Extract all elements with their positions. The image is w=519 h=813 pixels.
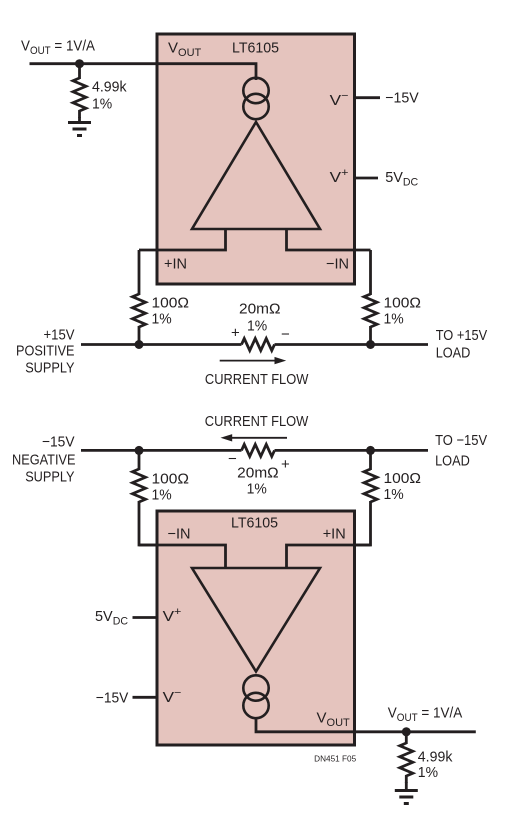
label 100ohm (R3) — [384, 295, 422, 312]
wire R6 to -IN rail — [139, 501, 226, 545]
svg-text:NEGATIVE: NEGATIVE — [12, 452, 76, 469]
svg-text:−15V: −15V — [96, 689, 129, 706]
node junction R3/rail — [366, 340, 375, 349]
node junction at R8 top — [402, 727, 411, 736]
svg-text:POSITIVE: POSITIVE — [16, 343, 75, 360]
wire V+ stub — [355, 177, 378, 180]
label LT6105 (top box) — [232, 40, 279, 57]
wire R7 to +IN rail — [287, 501, 371, 545]
label VOUT = 1V/A (top left) — [21, 37, 95, 57]
svg-text:−15V: −15V — [42, 434, 75, 451]
resistor R3 100ohm right zigzag — [364, 294, 377, 327]
svg-text:−IN: −IN — [168, 526, 191, 543]
svg-text:4.99k: 4.99k — [418, 749, 453, 766]
svg-text:SUPPLY: SUPPLY — [25, 469, 74, 486]
wire to R8 — [405, 732, 408, 744]
label + (R4 left) — [231, 324, 240, 341]
label 1% (R8) — [418, 764, 438, 781]
wire V- stub (bottom) — [133, 696, 159, 699]
current flow arrow (top, pointing right) — [220, 357, 287, 364]
svg-text:TO +15V: TO +15V — [436, 327, 488, 344]
resistor R7 100ohm right zigzag (bottom) — [364, 469, 377, 502]
svg-text:20mΩ: 20mΩ — [237, 465, 279, 482]
label -15V NEGATIVE SUPPLY — [12, 434, 76, 486]
wire R3 to supply rail — [369, 326, 372, 345]
resistor R5 20mohm shunt zigzag (bottom) — [242, 444, 275, 456]
svg-text:LT6105: LT6105 — [232, 40, 279, 57]
svg-text:LOAD: LOAD — [435, 452, 470, 469]
label 1% (R3) — [384, 311, 404, 328]
label -15V (bottom V-) — [96, 689, 129, 706]
label 1% (R1) — [92, 96, 112, 113]
ground (bottom right) — [395, 791, 418, 804]
label VOUT = 1V/A (bottom right) — [388, 704, 463, 724]
pin V- (top box) — [330, 90, 349, 109]
current flow arrow (bottom, pointing left) — [221, 434, 288, 441]
wire V- stub — [354, 96, 380, 99]
resistor R1 4.99k zigzag — [73, 78, 86, 118]
label 1% (R5) — [247, 481, 267, 498]
svg-text:LT6105: LT6105 — [231, 515, 278, 532]
svg-text:TO −15V: TO −15V — [435, 432, 487, 449]
pin V- (bottom box) — [163, 687, 182, 706]
svg-text:+IN: +IN — [164, 256, 187, 273]
svg-text:1%: 1% — [247, 318, 267, 335]
label 100ohm (R6) — [152, 471, 190, 488]
svg-text:+: + — [231, 324, 240, 341]
wire rail to R6 — [138, 450, 141, 470]
wire V+ stub (bottom) — [133, 616, 159, 619]
label 4.99k (R8) — [418, 749, 453, 766]
svg-text:20mΩ: 20mΩ — [239, 301, 281, 318]
svg-text:−: − — [228, 450, 237, 467]
label 5VDC (top V+ supply) — [385, 169, 418, 189]
label VOUT (bottom box pin) — [317, 710, 351, 730]
label +15V POSITIVE SUPPLY — [16, 327, 75, 377]
wire +15V supply rail right — [275, 343, 429, 346]
svg-text:1%: 1% — [92, 96, 112, 113]
label 1% (R7) — [384, 486, 404, 503]
wire -IN right vertical — [369, 250, 372, 295]
label -15V (top V- supply) — [385, 90, 419, 107]
amplifier triangle U1 — [192, 122, 320, 229]
label -IN (bottom box) — [168, 526, 191, 543]
svg-text:+15V: +15V — [44, 327, 75, 344]
svg-text:CURRENT FLOW: CURRENT FLOW — [205, 413, 309, 430]
label -IN (top box) — [326, 256, 349, 273]
current source U2 (two circles) — [243, 675, 268, 718]
svg-text:VOUT = 1V/A: VOUT = 1V/A — [388, 704, 463, 724]
svg-text:1%: 1% — [384, 311, 404, 328]
wire -15V supply rail right — [275, 449, 429, 452]
wire +IN rail into box — [287, 545, 371, 569]
wire R8 to ground — [405, 782, 408, 791]
label 100ohm (R7) — [384, 470, 422, 487]
wire -IN stub (triangle to -IN rail) — [287, 228, 371, 250]
wire VOUT output (top left) — [30, 62, 158, 65]
svg-text:1%: 1% — [418, 764, 438, 781]
svg-text:4.99k: 4.99k — [92, 79, 127, 96]
node junction left rail/R6 — [135, 446, 144, 455]
svg-text:5VDC: 5VDC — [385, 169, 418, 189]
resistor R2 100ohm left zigzag — [133, 294, 146, 327]
label 5VDC (bottom V+) — [95, 608, 128, 628]
node junction R2/rail — [135, 340, 144, 349]
pin V+ (top box) — [330, 167, 349, 186]
resistor R4 20mohm shunt zigzag — [242, 339, 275, 351]
svg-text:100Ω: 100Ω — [384, 470, 422, 487]
label - (R4 right) — [281, 326, 290, 343]
amplifier triangle U2 (inverted) — [192, 568, 320, 672]
resistor R6 100ohm left zigzag (bottom) — [133, 469, 146, 502]
svg-text:+IN: +IN — [323, 526, 346, 543]
pin V+ (bottom box) — [163, 606, 182, 625]
wire +15V supply rail left — [81, 343, 242, 346]
svg-text:1%: 1% — [152, 487, 172, 504]
wire -15V supply rail left — [81, 449, 242, 452]
ground (top left) — [68, 123, 91, 136]
wire VOUT inside top box — [157, 64, 256, 80]
svg-text:100Ω: 100Ω — [384, 295, 422, 312]
svg-text:+: + — [281, 456, 290, 473]
svg-text:1%: 1% — [247, 481, 267, 498]
label TO +15V LOAD — [436, 327, 488, 362]
wire R2 to supply rail — [138, 326, 141, 345]
label TO -15V LOAD — [435, 432, 487, 469]
label 1% (R4) — [247, 318, 267, 335]
label - (R5 left) — [228, 450, 237, 467]
label + (R5 right) — [281, 456, 290, 473]
label +IN (bottom box) — [323, 526, 346, 543]
svg-text:CURRENT FLOW: CURRENT FLOW — [205, 371, 309, 388]
resistor R8 4.99k zigzag (bottom) — [400, 743, 413, 783]
wire -IN rail into box — [139, 545, 226, 569]
svg-text:1%: 1% — [152, 311, 172, 328]
svg-text:SUPPLY: SUPPLY — [25, 360, 74, 377]
svg-text:LOAD: LOAD — [436, 345, 471, 362]
wire R1 to ground — [78, 117, 81, 123]
label 100ohm (R2) — [152, 295, 190, 312]
svg-text:−15V: −15V — [385, 90, 419, 107]
svg-text:1%: 1% — [384, 486, 404, 503]
label VOUT (pin, top box) — [168, 40, 202, 60]
label 20mohm (R5) — [237, 465, 279, 482]
label LT6105 (bottom box) — [231, 515, 278, 532]
label CURRENT FLOW (bottom) — [205, 413, 309, 430]
op-amp U2 body (LT6105 block bottom) — [157, 511, 355, 745]
svg-text:100Ω: 100Ω — [152, 295, 190, 312]
svg-text:5VDC: 5VDC — [95, 608, 128, 628]
current source U1 (two circles) — [243, 78, 268, 119]
label DN451 F05 — [314, 754, 357, 763]
wire +IN left vertical — [138, 250, 141, 295]
svg-text:−IN: −IN — [326, 256, 349, 273]
label +IN (top box) — [164, 256, 187, 273]
node junction right rail/R7 — [366, 446, 375, 455]
svg-text:DN451 F05: DN451 F05 — [314, 754, 357, 763]
wire to R1 — [78, 64, 81, 79]
op-amp U1 body (LT6105 block) — [157, 34, 355, 284]
label 1% (R2) — [152, 311, 172, 328]
label 1% (R6) — [152, 487, 172, 504]
node junction at R1 top — [75, 59, 84, 68]
svg-text:VOUT = 1V/A: VOUT = 1V/A — [21, 37, 95, 57]
svg-text:−: − — [281, 326, 290, 343]
label 20mohm (R4) — [239, 301, 281, 318]
wire +IN stub (triangle to +IN rail) — [139, 228, 226, 250]
label CURRENT FLOW (top) — [205, 371, 309, 388]
wire rail to R7 — [369, 450, 372, 470]
wire VOUT (bottom) — [256, 717, 476, 732]
label 4.99k (R1) — [92, 79, 127, 96]
svg-text:100Ω: 100Ω — [152, 471, 190, 488]
